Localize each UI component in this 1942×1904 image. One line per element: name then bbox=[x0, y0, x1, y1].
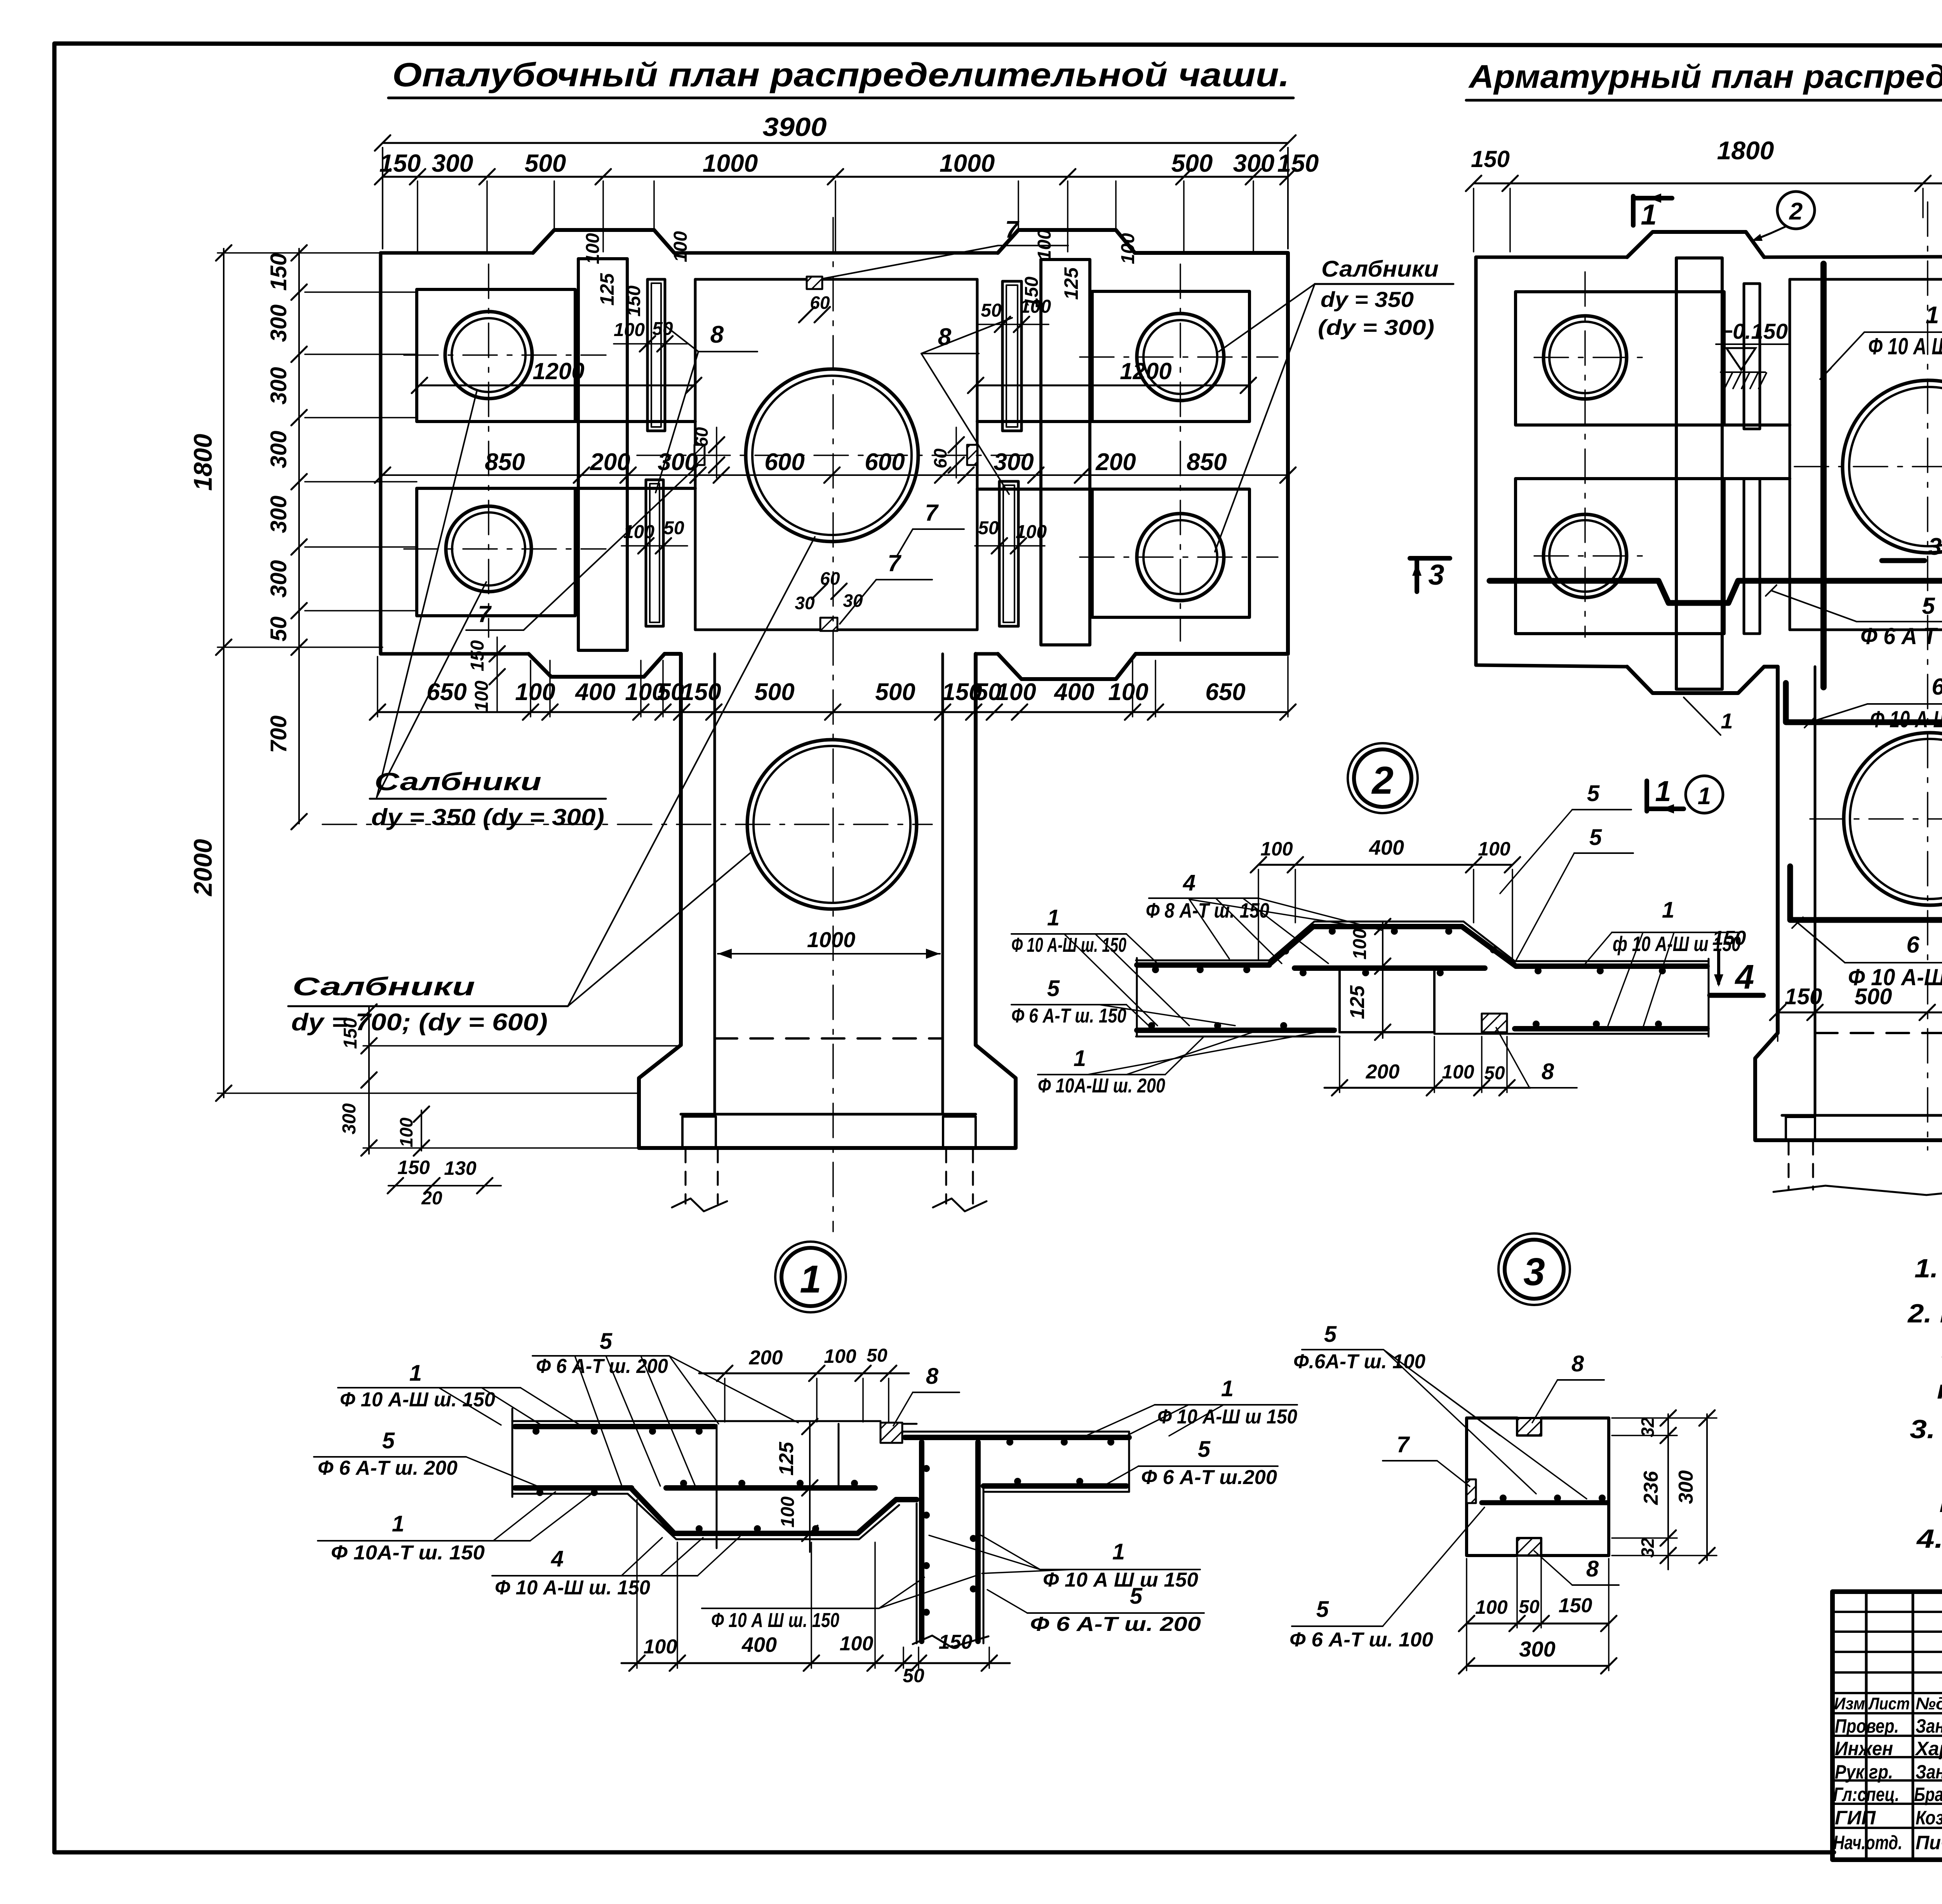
svg-text:Ф 6 А Т ш. 200: Ф 6 А Т ш. 200 bbox=[1860, 623, 1942, 649]
section1 lower left bar bbox=[515, 1485, 632, 1491]
svg-text:1. Данный лист комплектен с: 1. Данный лист комплектен с листами КЖ-9… bbox=[1914, 1254, 1942, 1283]
section marker 3 left bbox=[1410, 556, 1450, 561]
svg-text:Нач.отд.: Нач.отд. bbox=[1833, 1832, 1902, 1853]
svg-text:150: 150 bbox=[467, 640, 488, 671]
svg-text:4: 4 bbox=[551, 1546, 564, 1571]
svg-text:3: 3 bbox=[1428, 559, 1444, 591]
svg-text:Ф 10 А Ш ш. 150: Ф 10 А Ш ш. 150 bbox=[1870, 706, 1942, 732]
svg-text:150: 150 bbox=[379, 149, 421, 177]
wing cavity lower-right bbox=[1092, 489, 1249, 617]
section2 right flat slab bbox=[1515, 960, 1709, 962]
section2 bottom right bar and outline bbox=[1434, 1033, 1709, 1035]
svg-text:60: 60 bbox=[820, 568, 840, 589]
big strip column right bbox=[1041, 260, 1090, 645]
svg-text:Харченко: Харченко bbox=[1914, 1738, 1942, 1759]
svg-text:50: 50 bbox=[867, 1345, 887, 1366]
pile dashes below footing bbox=[685, 1149, 687, 1204]
svg-text:4: 4 bbox=[1735, 958, 1754, 996]
section2 bottom left bar and outline bbox=[1136, 1036, 1340, 1038]
svg-text:150: 150 bbox=[1471, 146, 1510, 172]
right stem dim row 150-500-500-150 bbox=[1778, 1012, 1942, 1014]
svg-text:dy = 350: dy = 350 bbox=[1321, 287, 1414, 312]
section marker 3 with underbar and arrow mid plan bbox=[1882, 558, 1925, 563]
svg-text:400: 400 bbox=[1369, 836, 1404, 859]
svg-text:100: 100 bbox=[583, 233, 603, 264]
svg-text:50: 50 bbox=[658, 679, 684, 706]
svg-text:100: 100 bbox=[1350, 928, 1370, 960]
svg-text:3: 3 bbox=[1928, 533, 1942, 560]
svg-text:850: 850 bbox=[1187, 449, 1227, 476]
left plan bottom bump left bbox=[529, 654, 665, 677]
svg-text:650: 650 bbox=[426, 679, 466, 706]
thin sleeve strip lower-right bbox=[999, 481, 1018, 626]
right stem footing top edge bbox=[1782, 1114, 1942, 1117]
svg-text:7: 7 bbox=[925, 500, 939, 526]
svg-text:200: 200 bbox=[590, 449, 630, 476]
dim 3900 top bbox=[383, 142, 1288, 144]
svg-text:1: 1 bbox=[1655, 775, 1671, 807]
svg-text:Ф 6 А-Т ш. 200: Ф 6 А-Т ш. 200 bbox=[1030, 1613, 1201, 1636]
svg-text:(dy = 300): (dy = 300) bbox=[1318, 315, 1434, 340]
section1 label F10A-III sh.150 bottom-center bbox=[702, 1608, 879, 1609]
right big strip column left bbox=[1676, 258, 1722, 689]
section3 bottom notch bbox=[1517, 1538, 1541, 1556]
svg-text:1: 1 bbox=[1698, 783, 1711, 810]
circle lower-right wing bbox=[1137, 514, 1224, 601]
svg-text:700: 700 bbox=[266, 716, 291, 753]
svg-text:850: 850 bbox=[485, 449, 525, 476]
svg-text:100: 100 bbox=[1260, 838, 1293, 860]
svg-text:№докумен.: №докумен. bbox=[1916, 1694, 1942, 1713]
svg-text:60: 60 bbox=[691, 427, 712, 447]
svg-text:125: 125 bbox=[596, 273, 618, 306]
svg-text:100: 100 bbox=[1108, 679, 1148, 706]
middle beam left edges bbox=[575, 420, 695, 423]
svg-text:Опалубочный план распредели: Опалубочный план распределительной чаши. bbox=[392, 56, 1289, 94]
svg-text:600: 600 bbox=[865, 449, 905, 476]
stem footing top edge bbox=[681, 1113, 976, 1116]
svg-text:Браславский: Браславский bbox=[1914, 1784, 1942, 1805]
svg-text:150: 150 bbox=[266, 253, 291, 291]
svg-text:3. Арматуру днища чаши в ме: 3. Арматуру днища чаши в местах прохода … bbox=[1910, 1414, 1942, 1444]
thin sleeve strip lower-left bbox=[646, 480, 663, 626]
svg-text:300: 300 bbox=[266, 496, 291, 533]
wing cavity lower-left bbox=[417, 488, 575, 616]
svg-text:100: 100 bbox=[1016, 522, 1047, 542]
left outer vertical dim 1800/2000 bbox=[223, 249, 224, 1097]
section3 bottom dims 100-50-150 bbox=[1467, 1623, 1609, 1625]
svg-text:Ф 6 А-Т ш. 150: Ф 6 А-Т ш. 150 bbox=[1011, 1005, 1126, 1027]
svg-text:150: 150 bbox=[939, 1631, 973, 1653]
svg-text:8: 8 bbox=[1542, 1059, 1554, 1084]
svg-text:300: 300 bbox=[339, 1103, 360, 1134]
section1 bottom dims 100-400-100-150-50 bbox=[621, 1662, 1010, 1664]
svg-text:300: 300 bbox=[266, 367, 291, 405]
section2 left slab outline and top bar bbox=[1136, 958, 1138, 1036]
svg-text:100: 100 bbox=[778, 1496, 798, 1528]
hatched notch left wall bbox=[694, 445, 705, 465]
svg-text:6: 6 bbox=[1932, 674, 1942, 700]
svg-text:100: 100 bbox=[1478, 838, 1510, 860]
svg-text:Козловская: Козловская bbox=[1916, 1807, 1942, 1829]
svg-text:Зантберг: Зантберг bbox=[1916, 1715, 1942, 1737]
break squiggle right pile bbox=[933, 1198, 987, 1211]
svg-text:1: 1 bbox=[409, 1360, 422, 1386]
section marker 1 bottom bbox=[1644, 781, 1649, 811]
section2 left slope bbox=[1269, 922, 1314, 960]
thin sleeve strip upper-right bbox=[1002, 281, 1021, 431]
svg-text:ф 10 А-Ш ш 150: ф 10 А-Ш ш 150 bbox=[1613, 932, 1741, 956]
stem base vertical dims 150/300 bbox=[368, 1006, 370, 1154]
svg-text:7: 7 bbox=[1005, 216, 1020, 243]
svg-text:1800: 1800 bbox=[1717, 136, 1774, 165]
section3 right dims 32-236-32 bbox=[1667, 1414, 1669, 1570]
section3 block outline bbox=[1467, 1418, 1517, 1556]
detail circle 3 bbox=[1498, 1233, 1570, 1305]
svg-text:Ф 6 А-Т ш. 100: Ф 6 А-Т ш. 100 bbox=[1289, 1629, 1433, 1651]
section marker 1 top bbox=[1631, 196, 1636, 225]
rebar stem U1 top bbox=[1786, 683, 1942, 722]
left wings vertical centerline bbox=[488, 264, 489, 637]
svg-text:100: 100 bbox=[396, 1117, 416, 1147]
svg-text:300: 300 bbox=[1675, 1470, 1697, 1504]
svg-text:3900: 3900 bbox=[763, 112, 827, 142]
svg-text:1: 1 bbox=[1112, 1539, 1125, 1564]
svg-text:50: 50 bbox=[663, 518, 684, 538]
section2 right slope bbox=[1463, 922, 1515, 961]
svg-text:7: 7 bbox=[1397, 1432, 1410, 1457]
central circle horizontal centerline bbox=[637, 455, 1033, 456]
svg-text:150: 150 bbox=[681, 679, 721, 706]
svg-text:100: 100 bbox=[644, 1636, 677, 1658]
thin sleeve strip upper-left bbox=[647, 279, 665, 431]
svg-text:150: 150 bbox=[1785, 984, 1822, 1009]
svg-text:Арматурный план распредели: Арматурный план распределительной чаши. bbox=[1468, 58, 1942, 95]
svg-text:300: 300 bbox=[266, 305, 291, 342]
svg-text:по пояснительной записке.: по пояснительной записке. bbox=[1937, 1375, 1942, 1404]
svg-text:Инжен: Инжен bbox=[1835, 1738, 1893, 1759]
main vertical centerline bbox=[832, 218, 834, 1232]
section1 hatched notch 8 bbox=[881, 1423, 902, 1443]
svg-text:600: 600 bbox=[764, 449, 804, 476]
center dim row 850-200-300-600-600-300-200-850 bbox=[383, 474, 1288, 476]
svg-text:8: 8 bbox=[926, 1364, 939, 1389]
break squiggle left pile bbox=[672, 1198, 727, 1211]
svg-text:50: 50 bbox=[981, 300, 1002, 321]
ground symbol at -0.150 bbox=[1726, 348, 1756, 370]
right thin sleeve lower-left bbox=[1744, 479, 1760, 634]
svg-text:Ф 10А-Ш ш. 200: Ф 10А-Ш ш. 200 bbox=[1038, 1075, 1165, 1097]
svg-text:300: 300 bbox=[432, 149, 473, 177]
stem right leg bbox=[943, 1117, 976, 1148]
svg-text:150: 150 bbox=[340, 1018, 361, 1049]
section2 vertical dims 100 and 125 bbox=[1382, 922, 1383, 1038]
svg-text:2000: 2000 bbox=[188, 839, 217, 897]
dim row 150-300-500-1000-1000-500-300-150 bbox=[383, 176, 1288, 178]
stem left leg bbox=[682, 1117, 716, 1148]
stem circle bbox=[747, 740, 917, 909]
svg-text:Гл:спец.: Гл:спец. bbox=[1833, 1784, 1899, 1805]
svg-text:1: 1 bbox=[1221, 1376, 1234, 1401]
svg-text:dy = 700; (dy = 600): dy = 700; (dy = 600) bbox=[291, 1009, 548, 1036]
right central big circle bbox=[1843, 380, 1942, 553]
section3 top notch bbox=[1517, 1418, 1541, 1435]
section2 chord bar bbox=[1295, 965, 1485, 971]
svg-text:50: 50 bbox=[903, 1665, 924, 1686]
svg-text:500: 500 bbox=[1171, 149, 1213, 177]
svg-text:Ф 10 А Ш ш. 150: Ф 10 А Ш ш. 150 bbox=[1868, 333, 1942, 359]
section1 wall break bbox=[913, 1636, 988, 1647]
svg-text:125: 125 bbox=[1346, 985, 1369, 1019]
central big circle bbox=[746, 369, 918, 542]
section1 top dims 200-100-50 bbox=[699, 1373, 909, 1374]
right pile dashes bbox=[1788, 1141, 1790, 1190]
svg-text:Рук.гр.: Рук.гр. bbox=[1835, 1761, 1893, 1783]
section1 left slab outline bbox=[512, 1409, 513, 1497]
dim 1200 right bbox=[976, 385, 1248, 387]
svg-text:Салбники: Салбники bbox=[292, 972, 475, 1001]
svg-text:500: 500 bbox=[754, 679, 794, 706]
svg-text:200: 200 bbox=[1366, 1061, 1400, 1083]
svg-text:Ф 6 А-Т ш.200: Ф 6 А-Т ш.200 bbox=[1141, 1466, 1277, 1489]
svg-text:125: 125 bbox=[775, 1442, 798, 1476]
section3 left pad bbox=[1467, 1479, 1476, 1503]
svg-text:1: 1 bbox=[800, 1258, 821, 1301]
svg-text:1: 1 bbox=[1641, 199, 1657, 231]
svg-text:1: 1 bbox=[1662, 897, 1674, 923]
right circle lower-left wing bbox=[1544, 514, 1627, 598]
svg-text:50: 50 bbox=[1484, 1063, 1505, 1084]
right wing cavity upper-left bbox=[1516, 292, 1724, 425]
svg-text:650: 650 bbox=[1205, 679, 1245, 706]
svg-text:Пичахчи: Пичахчи bbox=[1916, 1832, 1942, 1853]
central chamber outline bbox=[695, 278, 977, 281]
svg-text:1: 1 bbox=[1721, 709, 1733, 733]
svg-text:100: 100 bbox=[824, 1345, 856, 1367]
svg-text:1: 1 bbox=[1047, 905, 1060, 930]
svg-text:−0.150: −0.150 bbox=[1720, 319, 1788, 343]
right plan bottom bump left bbox=[1627, 667, 1764, 693]
svg-text:Ф.6А-Т ш. 100: Ф.6А-Т ш. 100 bbox=[1293, 1350, 1425, 1373]
svg-text:2: 2 bbox=[1789, 198, 1803, 225]
svg-text:dy = 350 (dy = 300): dy = 350 (dy = 300) bbox=[371, 804, 604, 830]
section2 hump top bbox=[1314, 921, 1463, 923]
svg-text:150: 150 bbox=[1277, 149, 1319, 177]
svg-text:100: 100 bbox=[1442, 1061, 1474, 1083]
svg-text:1800: 1800 bbox=[188, 434, 217, 491]
svg-text:100: 100 bbox=[1118, 233, 1138, 264]
left inner vertical dim column 150/300s/50/700 bbox=[298, 249, 300, 824]
right central chamber outline bbox=[1789, 279, 1791, 630]
svg-text:1000: 1000 bbox=[940, 149, 995, 177]
bottom dim row 650-100-400-100-50-150-500-500-150-50-100-400-100-650 bbox=[378, 711, 1288, 713]
svg-text:150: 150 bbox=[1559, 1594, 1592, 1617]
svg-text:50: 50 bbox=[978, 518, 999, 538]
revision table verticals bbox=[1865, 1592, 1868, 1860]
svg-text:150: 150 bbox=[397, 1157, 430, 1178]
svg-text:400: 400 bbox=[1053, 679, 1094, 706]
svg-text:100: 100 bbox=[1020, 296, 1051, 317]
stem base bottom dims 150/130/20 bbox=[388, 1185, 501, 1186]
svg-text:2. Распределительную чашу вы: 2. Распределительную чашу выполнять из б… bbox=[1907, 1299, 1942, 1328]
svg-text:8: 8 bbox=[1586, 1556, 1599, 1582]
svg-text:4: 4 bbox=[1183, 870, 1195, 895]
svg-text:100: 100 bbox=[614, 320, 645, 340]
circled 2 detail mark top with arrow bbox=[1777, 192, 1815, 229]
svg-text:125: 125 bbox=[1060, 267, 1082, 300]
stem bell top dashed line bbox=[715, 1037, 943, 1040]
svg-text:8: 8 bbox=[710, 321, 724, 348]
svg-text:8: 8 bbox=[1571, 1351, 1584, 1376]
svg-text:Провер.: Провер. bbox=[1835, 1715, 1899, 1737]
svg-text:500: 500 bbox=[875, 679, 915, 706]
svg-text:20: 20 bbox=[421, 1188, 442, 1209]
svg-text:пусу сальника.: пусу сальника. bbox=[1939, 1488, 1942, 1518]
svg-text:1: 1 bbox=[392, 1511, 404, 1536]
svg-text:Лист: Лист bbox=[1868, 1694, 1910, 1713]
circle lower-left wing bbox=[446, 506, 531, 592]
svg-text:5: 5 bbox=[1130, 1583, 1143, 1609]
svg-text:5: 5 bbox=[1198, 1437, 1211, 1462]
right wings vertical centerline bbox=[1180, 264, 1181, 641]
svg-text:300: 300 bbox=[266, 560, 291, 598]
svg-text:Ф 10 А-Ш ш. 150: Ф 10 А-Ш ш. 150 bbox=[495, 1577, 650, 1599]
section2 pedestal bbox=[1338, 971, 1341, 1032]
svg-text:Ф 10 А-Ш ш 150: Ф 10 А-Ш ш 150 bbox=[1157, 1406, 1297, 1428]
svg-text:6: 6 bbox=[1906, 932, 1919, 958]
svg-text:1000: 1000 bbox=[807, 927, 856, 952]
stem circle horizontal centerline bbox=[322, 824, 932, 825]
right wing cavity lower-left bbox=[1516, 479, 1724, 634]
svg-text:5: 5 bbox=[1589, 825, 1602, 850]
svg-text:236: 236 bbox=[1640, 1471, 1662, 1505]
right plan top dim row 150-1800-1800-150 bbox=[1474, 183, 1942, 185]
wing cavity upper-right bbox=[1092, 291, 1249, 422]
detail circle 2 bbox=[1348, 743, 1418, 813]
svg-text:1200: 1200 bbox=[532, 358, 584, 384]
svg-text:200: 200 bbox=[1095, 449, 1136, 476]
svg-text:100: 100 bbox=[1475, 1596, 1508, 1618]
svg-text:Ф 10 А Ш ш 150: Ф 10 А Ш ш 150 bbox=[1043, 1569, 1198, 1591]
svg-text:100: 100 bbox=[670, 231, 691, 262]
right circle upper-left wing bbox=[1544, 316, 1627, 399]
svg-text:100: 100 bbox=[515, 679, 555, 706]
hatched notch bottom center bbox=[820, 618, 837, 631]
svg-text:30: 30 bbox=[795, 593, 815, 613]
svg-text:100: 100 bbox=[996, 679, 1036, 706]
dim 1200 left bbox=[419, 385, 694, 387]
circle upper-left wing bbox=[445, 312, 532, 399]
svg-text:Ф 10 А-Ш ш. 150: Ф 10 А-Ш ш. 150 bbox=[1011, 934, 1126, 956]
section1 top bar left bbox=[515, 1424, 715, 1429]
upper wings horizontal centerlines bbox=[404, 354, 606, 356]
svg-text:Салбники: Салбники bbox=[1321, 256, 1439, 282]
svg-text:7: 7 bbox=[478, 601, 492, 627]
svg-text:4. Размеры и отметки в скоб: 4. Размеры и отметки в скобках даны для bbox=[1916, 1524, 1942, 1554]
svg-text:5: 5 bbox=[1922, 593, 1935, 619]
lower wings horizontal centerlines bbox=[404, 548, 606, 550]
big strip column left bbox=[578, 259, 627, 650]
right central circle horizontal centerline bbox=[1794, 466, 1942, 467]
svg-text:Салбники: Салбники bbox=[374, 768, 541, 796]
svg-text:150: 150 bbox=[624, 286, 644, 317]
circled 1 detail mark bottom bbox=[1686, 776, 1723, 813]
rebar long horizontal bar with dips bbox=[1490, 578, 1942, 603]
right stem left leg bbox=[1786, 1117, 1815, 1140]
svg-text:5: 5 bbox=[1587, 781, 1600, 806]
section3 bottom dim 300 bbox=[1467, 1665, 1609, 1667]
svg-text:200: 200 bbox=[749, 1347, 783, 1369]
rebar thick vertical bar A bbox=[1820, 264, 1827, 687]
svg-text:Зантберг: Зантберг bbox=[1916, 1761, 1942, 1783]
wing cavity upper-left bbox=[417, 289, 575, 422]
right wing centerlines bbox=[1584, 272, 1586, 637]
svg-text:Ф 10 А Ш ш. 150: Ф 10 А Ш ш. 150 bbox=[711, 1609, 839, 1632]
section1 dims 125 100 vertical bbox=[809, 1422, 811, 1552]
right stem bell top dashed bbox=[1815, 1032, 1942, 1034]
svg-text:100: 100 bbox=[840, 1632, 874, 1655]
hatched notch top center bbox=[807, 277, 822, 289]
svg-text:5: 5 bbox=[1047, 976, 1060, 1001]
svg-text:300: 300 bbox=[1233, 149, 1275, 177]
svg-text:1: 1 bbox=[1074, 1046, 1086, 1071]
frame bottom edge bbox=[54, 1850, 1834, 1855]
section1 bent chain bbox=[632, 1489, 917, 1533]
section2 bottom dims 200-100-50 bbox=[1324, 1087, 1530, 1089]
revision table horizontals bbox=[1832, 1611, 1942, 1613]
svg-text:60: 60 bbox=[930, 448, 950, 469]
svg-text:ГИП: ГИП bbox=[1835, 1807, 1876, 1829]
svg-text:1000: 1000 bbox=[703, 149, 758, 177]
right thin sleeve upper-left bbox=[1744, 284, 1760, 429]
right middle beam left bbox=[1724, 423, 1790, 427]
svg-text:130: 130 bbox=[444, 1157, 477, 1179]
right stem circle bbox=[1844, 733, 1942, 905]
title block outer frame bbox=[1832, 1592, 1942, 1860]
right plan stem outline with bell footing bbox=[1755, 665, 1942, 1140]
rebar stem U2 bbox=[1790, 866, 1942, 920]
section2 hatched pad 8 bbox=[1482, 1014, 1507, 1032]
left plan stem outline with bell footing bbox=[639, 654, 1016, 1148]
svg-text:5: 5 bbox=[600, 1329, 613, 1354]
circle upper-right wing bbox=[1137, 314, 1224, 401]
right pile break line bbox=[1773, 1186, 1942, 1195]
middle beam right edges bbox=[977, 420, 1092, 423]
svg-text:1: 1 bbox=[1926, 302, 1939, 329]
svg-text:7: 7 bbox=[887, 550, 901, 576]
section3 outer dim 300 vertical bbox=[1706, 1414, 1708, 1560]
svg-text:500: 500 bbox=[525, 149, 566, 177]
right stem circle horizontal centerline bbox=[1810, 818, 1942, 820]
section1 right slab bbox=[902, 1431, 1129, 1433]
svg-text:Ф 10А-Т ш. 150: Ф 10А-Т ш. 150 bbox=[331, 1542, 485, 1564]
svg-text:5: 5 bbox=[1316, 1597, 1329, 1622]
svg-text:400: 400 bbox=[574, 679, 615, 706]
detail circle 1 bbox=[775, 1242, 846, 1312]
hatched notch right wall bbox=[967, 445, 977, 465]
section3 bar bbox=[1482, 1500, 1607, 1505]
svg-text:2: 2 bbox=[1371, 759, 1394, 802]
svg-text:1200: 1200 bbox=[1120, 358, 1171, 384]
svg-text:100: 100 bbox=[1034, 229, 1055, 260]
section1 bottom outline bbox=[512, 1494, 899, 1539]
svg-text:Ф 10 А-Ш ш. 150: Ф 10 А-Ш ш. 150 bbox=[1848, 964, 1942, 990]
stem dim 1000 bbox=[718, 953, 940, 955]
svg-text:300: 300 bbox=[994, 449, 1034, 476]
section1 pedestal verticals bbox=[716, 1425, 718, 1548]
right main vertical centerline bbox=[1927, 202, 1928, 1150]
svg-text:5: 5 bbox=[1324, 1322, 1337, 1347]
